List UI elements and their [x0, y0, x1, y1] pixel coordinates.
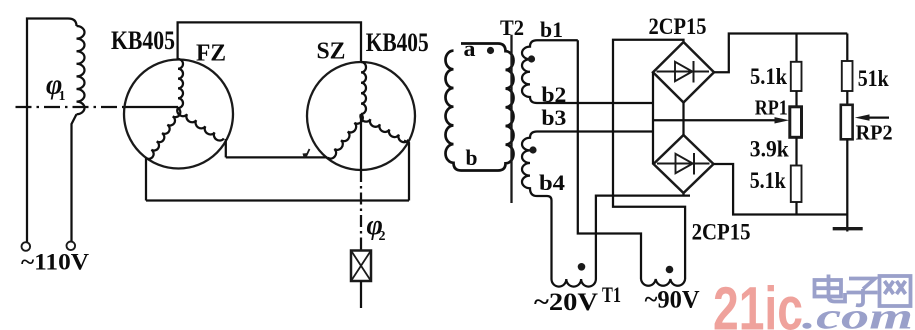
svg-text:b4: b4 [539, 170, 565, 195]
motor SZ stator circle [307, 62, 415, 170]
logo char wang [880, 276, 911, 306]
svg-text:b2: b2 [541, 82, 566, 107]
wire below fuse box [360, 281, 362, 308]
wire below phi1 coil [72, 114, 77, 241]
transformer T2 primary winding a-b [446, 44, 514, 171]
wire bottom bridge output to bottom rail [714, 164, 848, 215]
winding T1 ~90V [641, 279, 685, 286]
winding SZ lower-left [328, 114, 365, 161]
potentiometer RP2 [846, 91, 848, 105]
svg-text:21ic: 21ic [713, 275, 803, 330]
wire bridge AC left rail (joins both left corners) [652, 72, 654, 164]
svg-text:2: 2 [379, 229, 386, 244]
svg-text:5.1k: 5.1k [750, 64, 787, 89]
winding SZ lower-right [359, 114, 409, 144]
svg-text:T1: T1 [602, 282, 621, 307]
wire bottom return FZ to SZ [146, 199, 409, 201]
fuse/indicator box with X [351, 251, 371, 282]
svg-text:b: b [466, 145, 478, 170]
diode inside bottom bridge [657, 163, 710, 165]
wire ~90V right end up, over to top bridge top [613, 40, 685, 279]
svg-text:~90V: ~90V [645, 287, 700, 314]
polarity dot primary [487, 47, 494, 54]
wire FZ lower-left drop [145, 158, 147, 201]
terminal left of ~110V [22, 242, 31, 251]
svg-text:RP1: RP1 [755, 96, 788, 120]
svg-text:2CP15: 2CP15 [649, 14, 707, 39]
svg-text:51k: 51k [858, 66, 889, 91]
logo char dian [815, 275, 846, 302]
winding FZ lower-right [175, 108, 224, 143]
resistor 51k [846, 34, 848, 62]
wire stub bottom bridge tip [682, 192, 684, 196]
winding FZ up [178, 59, 183, 108]
logo char zi [847, 279, 878, 306]
wire bridge mid vertical between diamonds [682, 103, 684, 136]
svg-text:RP2: RP2 [856, 121, 893, 145]
potentiometer RP1 [795, 91, 797, 107]
terminal right of ~110V [67, 242, 76, 251]
wire SZ lower-right drop [404, 141, 409, 201]
ground [833, 227, 863, 230]
resistor 5.1k lower [795, 137, 797, 165]
svg-text:b3: b3 [541, 105, 566, 130]
svg-text:FZ: FZ [196, 41, 226, 67]
node phi1 dash-dot phase line [16, 106, 125, 108]
winding T1 ~20V [552, 279, 596, 287]
wire top bridge output to top rail [714, 34, 847, 73]
wire phase line into FZ center [124, 106, 178, 108]
svg-text:KB405: KB405 [366, 28, 429, 57]
wire top rail FZ to SZ [178, 22, 361, 62]
resistor 5.1k upper [795, 34, 797, 62]
svg-text:3.9k: 3.9k [750, 137, 789, 162]
svg-text:a: a [464, 36, 476, 61]
svg-text:~110V: ~110V [21, 250, 89, 275]
svg-text:.com: .com [802, 297, 913, 330]
bridge rectifier bottom 2CP15 diamond [654, 135, 714, 193]
wire b1 drop to ~90V winding [578, 40, 641, 279]
polarity dot secondary upper [528, 55, 535, 62]
svg-text:~20V: ~20V [534, 289, 598, 316]
core T2 [510, 35, 512, 203]
wire FZ right drop to rotor link [225, 139, 227, 157]
svg-text:SZ: SZ [317, 39, 346, 65]
inductor phi1 winding [77, 26, 85, 114]
node phi2 line from SZ center [360, 114, 362, 170]
svg-text:5.1k: 5.1k [750, 168, 786, 193]
polarity dot ~20V [578, 263, 586, 271]
wire rotor link FZ to SZ [226, 156, 328, 158]
arrow RP2 wiper [867, 116, 889, 118]
motor FZ stator circle [124, 60, 233, 169]
winding FZ lower-left [146, 108, 182, 161]
diode inside top bridge [657, 71, 710, 73]
arrow direction tick on rotor link [306, 149, 310, 158]
polarity dot secondary lower [529, 146, 536, 153]
wire wiper line to RP1 with arrow [653, 119, 778, 121]
wire right branch down [846, 139, 848, 231]
winding T2 secondary upper + wire b1/b2 [522, 40, 653, 103]
svg-text:2CP15: 2CP15 [692, 220, 751, 245]
svg-text:KB405: KB405 [111, 26, 175, 55]
bridge rectifier top 2CP15 diamond [653, 42, 714, 103]
winding SZ up [361, 62, 366, 114]
svg-text:1: 1 [59, 89, 66, 104]
polarity dot ~90V [666, 266, 674, 274]
wire ~20V right end up to bottom bridge tip [596, 196, 690, 279]
svg-text:T2: T2 [500, 15, 524, 40]
winding T2 secondary lower + wire b3/b4 [522, 132, 653, 280]
wire left supply vertical with top link [27, 19, 77, 243]
svg-text:b1: b1 [540, 17, 563, 42]
